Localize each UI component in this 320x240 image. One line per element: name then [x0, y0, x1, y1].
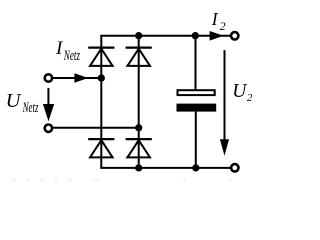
wire left bridge branch	[100, 36, 102, 168]
node: capacitor / top rail	[192, 32, 199, 39]
arrow U_2 (voltage, down)	[220, 50, 229, 156]
wire capacitor bottom lead	[195, 111, 197, 168]
capacitor C (electrolytic): top plate hollow	[178, 90, 215, 95]
capacitor C: bottom plate solid	[177, 104, 217, 112]
wire upper input	[53, 77, 102, 79]
node: capacitor / bottom rail	[192, 164, 199, 171]
terminal upper input	[45, 74, 52, 81]
terminal upper output	[231, 32, 238, 39]
wire top rail	[100, 35, 230, 37]
diode D4 (bottom-right)	[126, 139, 152, 157]
svg-text:U: U	[232, 81, 248, 102]
diode D1 (top-left)	[88, 48, 114, 66]
arrowhead I_Netz (input current)	[74, 73, 88, 83]
faint cropped caption remnants at bottom edge	[13, 179, 232, 181]
wire bottom rail	[100, 167, 230, 169]
svg-text:2: 2	[220, 21, 226, 33]
wire lower input	[53, 127, 139, 129]
node: upper input / left branch	[98, 74, 105, 81]
svg-text:Netz: Netz	[63, 48, 80, 64]
node: right branch / bottom rail	[135, 164, 142, 171]
wire right bridge branch	[138, 36, 140, 168]
diode D2 (top-right)	[126, 48, 152, 66]
wire capacitor top lead	[195, 36, 197, 90]
diode D3 (bottom-left)	[88, 139, 114, 157]
terminal lower input	[45, 125, 52, 132]
terminal lower output	[231, 164, 238, 171]
node: lower input / right branch	[135, 124, 142, 131]
svg-text:Netz: Netz	[22, 100, 39, 116]
node: right branch / top rail	[135, 32, 142, 39]
arrowhead I_2 (output current)	[210, 31, 224, 41]
arrow U_Netz (voltage, down)	[43, 88, 54, 121]
svg-text:U: U	[6, 90, 22, 112]
svg-text:2: 2	[247, 92, 253, 104]
svg-text:I: I	[211, 9, 219, 29]
svg-text:I: I	[55, 38, 64, 59]
